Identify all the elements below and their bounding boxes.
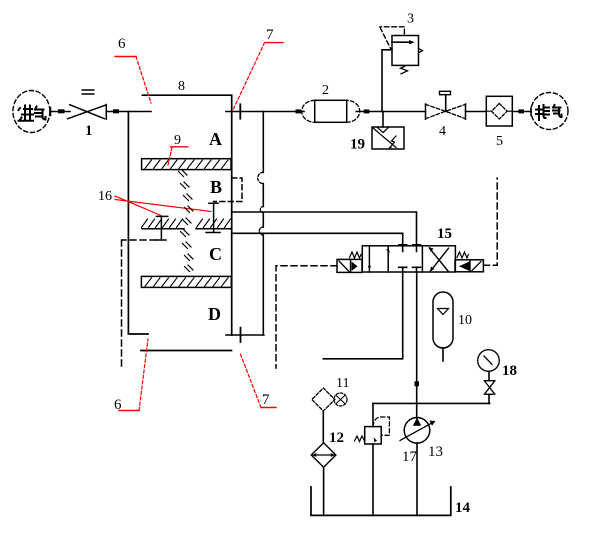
valve 18 (hourglass): [488, 371, 490, 380]
bottom-right port wire: [226, 334, 264, 336]
middle partition hatched bar (left part): [142, 219, 185, 229]
shut-off valve 4: [426, 104, 466, 119]
relief valve 17: [365, 427, 382, 444]
pilot dashed wire left of valve 15: [276, 266, 337, 368]
pilot dashed line from left nozzle: [122, 240, 157, 368]
svg-text:C: C: [209, 244, 222, 264]
right spring: [457, 252, 469, 258]
wire inlet to valve 1: [50, 111, 70, 113]
svg-text:5: 5: [496, 134, 503, 149]
flow tick: [415, 381, 420, 386]
svg-text:10: 10: [458, 313, 472, 328]
svg-text:17: 17: [402, 449, 418, 465]
svg-text:A: A: [209, 129, 222, 149]
flow tick: [113, 109, 119, 113]
valve 3 vent chevron: [419, 48, 423, 53]
svg-text:16: 16: [98, 189, 112, 204]
inlet port tick: [50, 108, 52, 116]
svg-text:6: 6: [118, 36, 126, 52]
lower hatched bar (piston between C and D): [141, 276, 231, 287]
svg-text:19: 19: [350, 137, 365, 153]
bottom manifold wire: [373, 402, 490, 404]
svg-text:7: 7: [266, 27, 274, 43]
gauge 18: [478, 350, 500, 372]
left spring: [350, 252, 362, 258]
exhaust circle (排气): [531, 93, 568, 130]
riser to relief valve 17: [372, 403, 374, 426]
svg-text:3: 3: [407, 12, 414, 27]
svg-text:13: 13: [428, 444, 443, 460]
nozzle 16 left: [156, 216, 168, 240]
svg-text:15: 15: [437, 226, 452, 242]
svg-text:1: 1: [85, 123, 93, 139]
wire filter 11 to cooler 12: [322, 411, 324, 443]
svg-text:7: 7: [262, 392, 270, 408]
relief valve 3: [392, 36, 419, 66]
position 1 flow lines: [368, 246, 370, 272]
filter 11: [312, 388, 335, 411]
channel wires from middle section to valve 15: [232, 212, 417, 246]
wire cooler to tank: [323, 467, 325, 515]
piston 9 (top hatched bar): [142, 159, 231, 170]
svg-text:4: 4: [439, 124, 446, 139]
block 8: cylinder body outline: [142, 95, 231, 335]
transducer 19: [382, 112, 384, 128]
svg-text:9: 9: [174, 133, 181, 148]
accumulator 10: [433, 292, 453, 348]
tank 14: [311, 487, 451, 515]
nozzle 16 right: [206, 203, 220, 232]
muffler 2: [315, 100, 347, 122]
flow tick: [519, 109, 525, 113]
排气 glyph strokes: [536, 105, 562, 120]
valve 3 pilot dashed: [380, 27, 404, 49]
relief valve 3 riser: [382, 50, 392, 112]
right solenoid: [455, 260, 483, 272]
cooler 12: [311, 443, 336, 468]
valve 3 spring: [401, 65, 408, 73]
wire valve 15 port B down and left: [323, 272, 402, 359]
wire 17 to tank: [372, 444, 374, 515]
pump 13: [404, 418, 430, 444]
left solenoid: [337, 259, 362, 272]
valve 1 '=' mark: [82, 90, 93, 94]
port tick: [239, 104, 241, 118]
position 2 (center) port stubs: [403, 246, 417, 252]
svg-text:18: 18: [502, 363, 517, 379]
svg-text:8: 8: [178, 79, 185, 94]
svg-text:2: 2: [322, 83, 329, 98]
directional valve 15 body: [362, 246, 455, 272]
svg-text:12: 12: [329, 430, 344, 446]
pilot dashed line from B chamber to right nozzle: [214, 178, 242, 202]
进气 glyph strokes: [19, 106, 46, 121]
pilot dashed wire right of valve 15: [483, 178, 497, 265]
wire valve 15 port P down to pump: [416, 272, 418, 418]
svg-text:B: B: [210, 177, 222, 197]
wire pump to tank: [416, 443, 418, 515]
flow tick: [364, 109, 370, 113]
middle partition hatched bar (right part): [196, 219, 232, 229]
flow tick: [296, 109, 302, 113]
exhaust port tick: [530, 108, 532, 116]
wire muffler to valve 4: [356, 111, 425, 113]
wire filter to exhaust: [512, 111, 531, 113]
svg-text:14: 14: [455, 500, 471, 516]
wire valve4 to filter 5: [466, 111, 487, 113]
svg-text:11: 11: [336, 376, 349, 391]
top-right port wire to component 2: [226, 111, 304, 113]
port tick: [240, 328, 242, 342]
position 3 crossed arrows: [429, 248, 448, 271]
piston rod dash marks: [179, 170, 194, 272]
svg-text:D: D: [208, 304, 221, 324]
filter 5: [486, 96, 512, 126]
flow tick: [58, 109, 65, 113]
air inlet source circle (进气): [13, 91, 50, 133]
wire valve1 to block: [106, 111, 151, 113]
valve 1 (throttle valve): [68, 105, 107, 120]
bypass wire (A to D chamber) with break arcs: [262, 112, 264, 336]
